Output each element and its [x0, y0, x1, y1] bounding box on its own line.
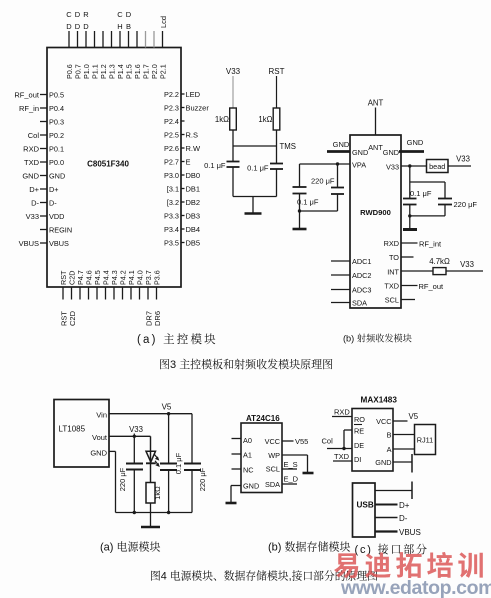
- svg-text:TXD: TXD: [334, 452, 350, 461]
- MCU left pin P0.0 / net TXD: [24, 158, 64, 167]
- wire joining C3/C4 bottoms: [300, 210, 338, 212]
- wire ANT: [375, 108, 377, 136]
- MCU bottom pin P4.4: [102, 270, 111, 299]
- pin SDA (inside): [265, 480, 280, 489]
- wire SCL stub: [401, 299, 415, 301]
- wire bottom rail: [233, 196, 277, 198]
- svg-text:P0.0: P0.0: [49, 158, 64, 167]
- wire INT to R3: [401, 270, 433, 272]
- caption (a) main control module: [137, 331, 218, 347]
- MCU top pin P1.1: [91, 31, 100, 79]
- svg-text:INT: INT: [387, 268, 399, 277]
- svg-text:0.1 μF: 0.1 μF: [247, 164, 269, 173]
- svg-text:VBUS: VBUS: [49, 239, 69, 248]
- MCU bottom pin P3.7: [144, 270, 154, 326]
- wire VCC / net V55: [282, 437, 308, 446]
- wire bead to V33 rail: [448, 165, 471, 167]
- wire Vout: [109, 435, 151, 437]
- svg-text:LED: LED: [186, 90, 201, 99]
- svg-text:GND: GND: [375, 458, 391, 467]
- resistor R4 1k&#937;: [146, 483, 162, 504]
- svg-text:4.7kΩ: 4.7kΩ: [429, 257, 450, 266]
- net TXD label + wire to DI: [333, 452, 352, 461]
- wire R1 bottom to cap C1: [232, 130, 234, 162]
- MCU top pin P1.6: [133, 31, 142, 79]
- resistor R2 1k&#937;: [258, 108, 279, 130]
- pin ADC1 with stub: [331, 257, 371, 266]
- wire R2 bottom to cap C2: [276, 130, 278, 164]
- ground (power module): [141, 513, 160, 528]
- transceiver U5 MAX1483 body: [352, 396, 397, 472]
- capacitor C5 0.1uF (V33): [403, 189, 432, 205]
- svg-text:VDD: VDD: [49, 212, 64, 221]
- net ANT label: [368, 99, 384, 108]
- MCU top pin P2.0: [150, 31, 159, 79]
- svg-text:TXD: TXD: [24, 158, 40, 167]
- svg-text:P2.6: P2.6: [164, 144, 179, 153]
- MCU left pin D+ / net D+: [29, 185, 58, 194]
- svg-text:P2.3: P2.3: [164, 103, 179, 112]
- wire USB D- / net D-: [375, 514, 408, 523]
- svg-text:Buzzer: Buzzer: [186, 103, 210, 112]
- svg-text:图3 主控模板和射频收发模块原理图: 图3 主控模板和射频收发模块原理图: [159, 356, 333, 372]
- MCU left pin GND / net GND: [22, 171, 65, 180]
- net TMS label: [280, 142, 296, 151]
- svg-text:V33: V33: [129, 425, 143, 434]
- svg-text:0.1 μF: 0.1 μF: [297, 198, 319, 207]
- wire Vout down to C7: [133, 436, 135, 463]
- svg-text:0.1 μF: 0.1 μF: [174, 452, 183, 474]
- svg-text:P0.3: P0.3: [49, 117, 64, 126]
- connector J2 USB body: [353, 483, 376, 537]
- ground bar (MAX1483): [411, 454, 413, 473]
- svg-text:TXD: TXD: [384, 282, 399, 291]
- pin ANT (inside): [368, 143, 383, 152]
- svg-text:VCC: VCC: [376, 417, 391, 426]
- svg-text:D+: D+: [49, 185, 59, 194]
- capacitor C2 0.1uF: [247, 164, 283, 173]
- caption fig4: [150, 569, 378, 584]
- wire VPA left branch down: [299, 164, 301, 187]
- ground (VPA caps): [293, 211, 307, 229]
- svg-text:P0.1: P0.1: [49, 144, 64, 153]
- svg-text:220 μF: 220 μF: [198, 467, 207, 491]
- wire V33 branch down: [409, 166, 411, 182]
- resistor R3 4.7k&#937;: [429, 257, 450, 275]
- svg-text:E_D: E_D: [284, 475, 299, 484]
- pin GND left (inside): [352, 148, 368, 157]
- junction C7 rail: [133, 511, 136, 514]
- svg-text:220 μF: 220 μF: [311, 177, 335, 186]
- svg-text:Col: Col: [28, 131, 40, 140]
- wire VCC / net V5: [393, 412, 419, 421]
- pin GND right (inside): [383, 148, 399, 157]
- svg-text:P2.5: P2.5: [164, 130, 179, 139]
- wire C8 to rail: [168, 470, 170, 513]
- svg-text:0.1 μF: 0.1 μF: [204, 161, 226, 170]
- svg-text:VPA: VPA: [352, 161, 366, 170]
- svg-text:D+: D+: [29, 185, 39, 194]
- capacitor C6 220uF (V33): [438, 199, 477, 210]
- svg-text:RO: RO: [354, 415, 365, 424]
- MCU top pin P0.7: [74, 10, 83, 79]
- svg-text:bead: bead: [429, 162, 445, 171]
- pin ADC3 with stub: [331, 286, 371, 295]
- svg-text:C: C: [66, 10, 72, 19]
- svg-text:DB5: DB5: [186, 238, 201, 247]
- svg-text:SCL: SCL: [266, 465, 280, 474]
- svg-text:LT1085: LT1085: [59, 425, 86, 434]
- svg-text:DE: DE: [354, 441, 364, 450]
- pin GND (MAX1483): [375, 458, 391, 467]
- svg-text:D: D: [75, 10, 81, 19]
- wire C1 to bottom rail: [232, 167, 234, 197]
- svg-text:1kΩ: 1kΩ: [153, 486, 162, 500]
- wire RST to R2: [276, 76, 278, 108]
- MCU top pin P1.3: [108, 31, 117, 79]
- pin ADC2 with stub: [331, 271, 371, 280]
- pin GND (AT24C16): [243, 482, 259, 491]
- regulator U3 LT1085 body: [54, 400, 109, 468]
- wire Col to DE: [327, 448, 352, 450]
- capacitor C8 0.1uF: [160, 452, 183, 474]
- ferrite bead FB1: [427, 160, 449, 173]
- net Col label: [322, 437, 334, 446]
- MCU left pin P0.1 / net RXD: [23, 144, 64, 153]
- wire joining C5/C6 bottoms: [410, 215, 445, 217]
- svg-text:VCC: VCC: [265, 437, 280, 446]
- MCU left pin VBUS / net VBUS: [19, 239, 69, 248]
- pin INT (inside): [387, 268, 399, 277]
- wire SCL / net E_S: [282, 460, 298, 469]
- wire V33 to R1 (faint): [232, 76, 234, 108]
- pin Vin (inside): [96, 411, 107, 420]
- net V33 label (INT pullup): [460, 260, 474, 269]
- MCU bottom pin RST: [59, 270, 69, 326]
- svg-text:TMS: TMS: [280, 142, 296, 151]
- svg-text:E_S: E_S: [284, 460, 298, 469]
- junction Vout: [133, 435, 136, 438]
- svg-text:DB2: DB2: [186, 198, 201, 207]
- wire B to RJ11: [393, 434, 415, 436]
- svg-text:P0.5: P0.5: [49, 90, 64, 99]
- svg-text:[3.2: [3.2: [167, 198, 179, 207]
- svg-text:220 μF: 220 μF: [118, 467, 127, 491]
- MCU top pin P1.5: [125, 10, 134, 79]
- wire VPA to bypass caps: [300, 163, 351, 165]
- svg-text:SDA: SDA: [352, 299, 367, 308]
- pin Vout (inside): [92, 433, 108, 442]
- svg-text:Vout: Vout: [92, 433, 108, 442]
- connector J1 RJ11: [415, 425, 436, 455]
- svg-text:TO: TO: [389, 253, 399, 262]
- svg-text:P3.0: P3.0: [164, 171, 179, 180]
- svg-text:0.1 μF: 0.1 μF: [410, 189, 432, 198]
- ground bar (USB): [411, 482, 413, 500]
- svg-text:ADC2: ADC2: [352, 271, 371, 280]
- MCU top pin P2.1: [159, 16, 169, 79]
- svg-text:D-: D-: [31, 198, 39, 207]
- MCU bottom pin P3.6: [153, 270, 163, 326]
- svg-text:H: H: [117, 22, 122, 31]
- wire cap top rail: [410, 181, 445, 183]
- wire C9 to rail: [191, 470, 193, 513]
- MCU right pin P3.5 / net DB5: [164, 238, 200, 247]
- caption fig3: [159, 356, 333, 372]
- wire GND left (thick): [327, 150, 350, 153]
- MCU left pin P0.4 / net RF_in: [19, 104, 64, 113]
- svg-text:V33: V33: [460, 260, 474, 269]
- MCU U1 C8051F340 body: [47, 48, 181, 288]
- wire USB shield to bar: [375, 490, 412, 492]
- wire TMS horizontal: [233, 145, 277, 147]
- ground (AT24C16 left): [226, 502, 237, 505]
- wire Vin to V5 rail: [109, 413, 192, 415]
- svg-text:MAX1483: MAX1483: [361, 396, 398, 405]
- wire V33 pin to bead: [401, 165, 427, 167]
- svg-text:GND: GND: [90, 449, 107, 458]
- wire RXD / net RF_int: [401, 240, 442, 249]
- svg-text:P2.2: P2.2: [164, 90, 179, 99]
- caption (a) power module: [100, 539, 161, 555]
- svg-text:DB0: DB0: [186, 171, 201, 180]
- capacitor C7 220uF: [118, 464, 143, 492]
- MCU left pin VDD / net V33: [26, 212, 65, 221]
- wire C6 bottom: [444, 205, 446, 216]
- pin VCC (inside): [265, 437, 280, 446]
- wire A to RJ11: [393, 448, 415, 450]
- pin SCL (inside): [266, 465, 280, 474]
- svg-text:GND: GND: [243, 482, 259, 491]
- svg-text:DB4: DB4: [186, 225, 201, 234]
- pin V33 (inside): [386, 163, 399, 172]
- svg-text:RJ11: RJ11: [417, 436, 434, 445]
- caption (b) data storage module: [268, 539, 351, 555]
- wire C4 bottom to junction: [337, 194, 339, 211]
- MCU left pin P0.2 / net Col: [28, 131, 64, 140]
- MCU left pin P0.3: [40, 117, 64, 126]
- EEPROM U4 AT24C16 body: [241, 414, 282, 493]
- net V33 label (Vout): [129, 425, 143, 436]
- pin RO (inside): [354, 415, 365, 424]
- MCU bottom pin P4.3: [110, 270, 119, 299]
- MCU bottom pin P4.2: [119, 270, 128, 299]
- svg-text:(a) 主控模块: (a) 主控模块: [137, 331, 218, 347]
- svg-text:USB: USB: [357, 501, 374, 510]
- svg-text:D-: D-: [49, 198, 57, 207]
- svg-text:GND: GND: [352, 148, 368, 157]
- pin VPA (inside): [352, 161, 366, 170]
- net V33 label (right): [456, 155, 470, 164]
- svg-text:ANT: ANT: [368, 143, 383, 152]
- MCU top pin P1.4: [116, 10, 125, 79]
- svg-text:V55: V55: [295, 437, 308, 446]
- MCU right pin P3.0 / net DB0: [164, 171, 200, 180]
- svg-text:SCL: SCL: [385, 296, 399, 305]
- wire RE-DE tie: [343, 430, 345, 449]
- junction below C3: [298, 209, 301, 212]
- MCU bottom pin P4.7: [76, 270, 85, 299]
- svg-text:[3.1: [3.1: [167, 184, 179, 193]
- junction on VPA wire: [336, 162, 339, 165]
- svg-text:ADC1: ADC1: [352, 257, 371, 266]
- pin DI (inside): [354, 455, 361, 464]
- svg-text:GND: GND: [407, 138, 424, 147]
- svg-text:NC: NC: [243, 466, 254, 475]
- ground (V33 caps): [403, 216, 417, 230]
- svg-text:P3.3: P3.3: [164, 211, 179, 220]
- svg-text:C: C: [117, 10, 123, 19]
- junction V5: [167, 412, 170, 415]
- wire R3 to V33: [446, 270, 483, 272]
- svg-text:A1: A1: [243, 451, 252, 460]
- svg-text:220 μF: 220 μF: [454, 200, 478, 209]
- MCU top pin P1.7: [142, 31, 151, 79]
- svg-text:Lcd: Lcd: [159, 16, 168, 28]
- wire down to C6: [444, 182, 446, 199]
- svg-text:A0: A0: [243, 436, 252, 445]
- svg-text:WP: WP: [268, 451, 280, 460]
- wire GND to bar: [393, 461, 412, 463]
- svg-text:VBUS: VBUS: [399, 528, 421, 537]
- svg-text:D: D: [83, 22, 89, 31]
- pin WP (inside): [268, 451, 280, 460]
- svg-text:P2.1: P2.1: [159, 64, 168, 79]
- MCU right pin P3.4 / net DB4: [164, 225, 200, 234]
- svg-text:RF_in: RF_in: [19, 104, 39, 113]
- MCU bottom pin C2D: [68, 271, 78, 326]
- junction RE/DE tie: [342, 447, 345, 450]
- svg-text:DR6: DR6: [153, 311, 162, 326]
- pin A0 with stub: [232, 436, 252, 445]
- net V5 label: [162, 403, 172, 412]
- svg-text:DB1: DB1: [186, 184, 201, 193]
- MCU right pin [3.1 / net DB1: [167, 184, 200, 193]
- MCU left pin D- / net D-: [31, 198, 57, 207]
- svg-text:E: E: [186, 157, 191, 166]
- svg-text:C8051F340: C8051F340: [87, 160, 129, 169]
- wire GND right (thick): [399, 150, 424, 153]
- svg-text:GND: GND: [49, 171, 65, 180]
- svg-text:V33: V33: [456, 155, 470, 164]
- svg-text:AT24C16: AT24C16: [246, 414, 280, 423]
- MCU bottom pin P4.5: [93, 270, 102, 299]
- svg-text:V33: V33: [26, 212, 39, 221]
- svg-text:SDA: SDA: [265, 480, 280, 489]
- svg-text:R.S: R.S: [186, 130, 199, 139]
- svg-text:V33: V33: [226, 67, 241, 76]
- svg-text:RE: RE: [354, 427, 364, 436]
- svg-text:ADC3: ADC3: [352, 286, 371, 295]
- svg-text:RXD: RXD: [334, 408, 350, 417]
- junction C8 rail: [167, 511, 170, 514]
- wire C5 bottom to junction: [409, 205, 411, 216]
- MCU right pin [3.2 / net DB2: [167, 198, 200, 207]
- svg-text:P3.5: P3.5: [164, 238, 179, 247]
- MCU right pin P2.7 / net E: [164, 157, 191, 166]
- MCU right pin P2.5 / net R.S: [164, 130, 198, 139]
- wire SDA / net E_D: [282, 475, 299, 485]
- svg-text:V5: V5: [162, 403, 172, 412]
- wire power bottom rail: [116, 512, 193, 514]
- MCU right pin P2.4: [164, 117, 185, 126]
- wire GND to ground: [231, 486, 241, 503]
- ground (WP): [303, 472, 314, 475]
- MCU right pin P2.2 / net LED: [164, 90, 201, 99]
- wire V5 corner down to C9: [191, 414, 193, 464]
- svg-text:(a) 电源模块: (a) 电源模块: [100, 539, 161, 555]
- MCU top pin P0.6: [65, 10, 74, 79]
- svg-text:R: R: [83, 10, 89, 19]
- pin VCC (MAX1483): [376, 417, 391, 426]
- pin SDA with stub: [331, 299, 367, 308]
- svg-text:GND: GND: [333, 140, 350, 149]
- wire V5 down to C8: [168, 414, 170, 464]
- MCU top pin P1.2: [99, 31, 108, 79]
- svg-text:1kΩ: 1kΩ: [215, 115, 229, 124]
- resistor R1 1k&#937;: [215, 108, 236, 130]
- svg-text:RF_out: RF_out: [14, 90, 40, 99]
- junction on V33 wire: [408, 164, 411, 167]
- svg-text:D: D: [126, 10, 132, 19]
- wire USB D+ / net D+: [375, 501, 410, 510]
- watermark yiditop training (red): [334, 545, 489, 584]
- pin A (inside): [387, 445, 392, 454]
- pin NC with stub: [232, 466, 254, 475]
- wire C7 to rail: [133, 470, 135, 513]
- svg-text:P0.2: P0.2: [49, 131, 64, 140]
- wire RE stub: [344, 429, 352, 431]
- svg-text:DI: DI: [354, 455, 361, 464]
- net GND left label: [333, 140, 350, 149]
- pin RE (inside, active low): [354, 425, 364, 436]
- net V33 label (top of R1): [226, 67, 241, 76]
- wire GND pin down: [109, 451, 116, 512]
- svg-text:V5: V5: [409, 412, 419, 421]
- pin DE (inside): [354, 441, 364, 450]
- MCU bottom pin P4.1: [127, 270, 136, 299]
- capacitor C3 0.1uF (VPA): [293, 187, 307, 194]
- wire C3 to junction: [299, 194, 301, 212]
- svg-text:RXD: RXD: [23, 144, 39, 153]
- pin A1 with stub: [232, 451, 252, 460]
- svg-text:www.edatop.com: www.edatop.com: [340, 577, 491, 598]
- capacitor C4 220uF (VPA): [311, 177, 344, 195]
- svg-text:D+: D+: [399, 501, 410, 510]
- svg-text:P3.4: P3.4: [164, 225, 179, 234]
- wire TXD / net RF_out: [401, 282, 444, 291]
- svg-text:D: D: [75, 22, 81, 31]
- MCU right pin P2.3 / net Buzzer: [164, 103, 209, 112]
- svg-text:RWD900: RWD900: [360, 208, 391, 217]
- MCU top pin P1.0: [82, 10, 91, 79]
- wire R4 to rail: [150, 503, 152, 513]
- svg-text:P2.4: P2.4: [164, 117, 179, 126]
- pin TXD (inside): [384, 282, 399, 291]
- svg-text:GND: GND: [22, 171, 39, 180]
- svg-text:RF_int: RF_int: [419, 240, 442, 249]
- svg-text:Vin: Vin: [96, 411, 107, 420]
- wire WP to ground: [282, 455, 308, 473]
- svg-text:ANT: ANT: [368, 99, 384, 108]
- svg-text:GND: GND: [383, 148, 399, 157]
- pin GND (inside): [90, 449, 107, 458]
- svg-text:P3.6: P3.6: [153, 270, 162, 285]
- MCU left pin P0.5 / net RF_out: [14, 90, 64, 99]
- pin SCL (inside): [385, 296, 399, 305]
- MCU bottom pin P4.6: [85, 270, 94, 299]
- label 0.1uF (C3): [296, 197, 325, 207]
